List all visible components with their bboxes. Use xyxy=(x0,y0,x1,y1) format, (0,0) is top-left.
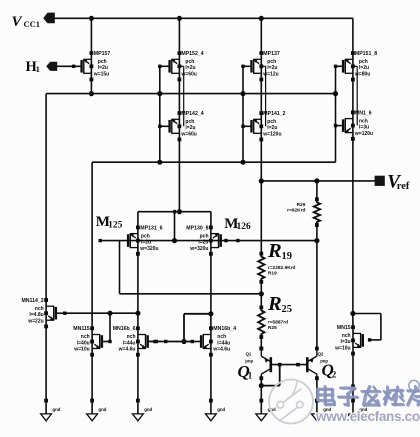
svg-text:pch: pch xyxy=(359,59,368,65)
svg-text:MP131_6: MP131_6 xyxy=(140,225,162,231)
svg-text:pch: pch xyxy=(185,119,194,125)
svg-text:w=22u: w=22u xyxy=(27,318,43,324)
svg-text:w=10u: w=10u xyxy=(334,346,350,352)
svg-text:pch: pch xyxy=(200,233,209,239)
svg-text:w=10u: w=10u xyxy=(73,347,89,353)
svg-text:w=4.6u: w=4.6u xyxy=(118,347,136,353)
svg-text:MP151_8: MP151_8 xyxy=(355,51,377,57)
svg-text:MN16b_6: MN16b_6 xyxy=(113,326,136,332)
svg-text:gnd: gnd xyxy=(217,407,225,412)
svg-text:w=320u: w=320u xyxy=(139,246,158,252)
svg-text:www.elecfans.com: www.elecfans.com xyxy=(315,409,420,424)
svg-text:r=2282.9Krd: r=2282.9Krd xyxy=(268,265,296,271)
svg-text:MP152_4: MP152_4 xyxy=(181,51,203,57)
svg-text:MN15: MN15 xyxy=(337,325,351,331)
svg-text:19: 19 xyxy=(282,251,293,262)
svg-text:R25: R25 xyxy=(268,325,277,331)
svg-text:gnd: gnd xyxy=(144,407,152,412)
svg-text:126: 126 xyxy=(237,222,252,232)
svg-text:MP141_2: MP141_2 xyxy=(263,111,285,117)
svg-text:125: 125 xyxy=(108,220,123,230)
svg-text:r=92Krd: r=92Krd xyxy=(287,207,305,213)
svg-text:w=80u: w=80u xyxy=(354,72,370,78)
svg-text:25: 25 xyxy=(282,304,293,315)
svg-text:1: 1 xyxy=(36,64,40,74)
svg-text:MN115: MN115 xyxy=(73,326,90,332)
svg-text:MN16b_4: MN16b_4 xyxy=(213,326,236,332)
svg-text:w=60u: w=60u xyxy=(180,132,196,138)
svg-text:w=320u: w=320u xyxy=(189,246,208,252)
svg-text:w=4.6u: w=4.6u xyxy=(212,347,230,353)
svg-text:l=3u: l=3u xyxy=(340,339,350,345)
svg-text:w=120u: w=120u xyxy=(262,132,281,138)
svg-text:l=44u: l=44u xyxy=(217,340,230,346)
svg-text:nch: nch xyxy=(359,118,368,124)
svg-text:nch: nch xyxy=(342,333,351,339)
svg-text:nch: nch xyxy=(217,334,226,340)
svg-text:2: 2 xyxy=(332,369,337,379)
svg-text:MN1_6: MN1_6 xyxy=(355,110,372,116)
svg-text:R19: R19 xyxy=(268,271,277,277)
svg-text:pch: pch xyxy=(98,59,107,65)
svg-text:w=60u: w=60u xyxy=(180,72,196,78)
svg-text:R: R xyxy=(267,293,282,315)
svg-text:nch: nch xyxy=(81,334,90,340)
svg-text:l=2u: l=2u xyxy=(185,65,195,71)
svg-text:l=2u: l=2u xyxy=(98,65,108,71)
svg-text:l=3u: l=3u xyxy=(359,124,369,130)
svg-text:nch: nch xyxy=(35,306,44,312)
svg-text:l=2u: l=2u xyxy=(359,65,369,71)
svg-text:Q2: Q2 xyxy=(318,351,324,356)
svg-text:w=12u: w=12u xyxy=(262,72,278,78)
svg-text:l=4.8u: l=4.8u xyxy=(29,312,43,318)
svg-text:l=40u: l=40u xyxy=(77,340,90,346)
svg-text:l=2u: l=2u xyxy=(198,239,208,245)
svg-text:nch: nch xyxy=(127,334,136,340)
svg-text:gnd: gnd xyxy=(52,407,60,412)
svg-text:w=15u: w=15u xyxy=(93,72,109,78)
svg-text:l=2u: l=2u xyxy=(267,65,277,71)
svg-text:MP130_8: MP130_8 xyxy=(186,225,208,231)
svg-text:w=120u: w=120u xyxy=(354,131,373,137)
svg-text:MP142_4: MP142_4 xyxy=(181,111,203,117)
svg-text:pch: pch xyxy=(185,59,194,65)
svg-text:R29: R29 xyxy=(297,202,306,208)
svg-text:ref: ref xyxy=(397,181,410,192)
svg-text:l=2u: l=2u xyxy=(185,125,195,131)
svg-text:gnd: gnd xyxy=(98,407,106,412)
svg-text:pch: pch xyxy=(267,119,276,125)
svg-text:Q1: Q1 xyxy=(246,351,252,356)
svg-text:CC1: CC1 xyxy=(24,19,41,29)
svg-text:r=5887rd: r=5887rd xyxy=(268,319,288,325)
svg-text:l=2u: l=2u xyxy=(267,125,277,131)
svg-text:MP157: MP157 xyxy=(94,51,111,57)
svg-text:pch: pch xyxy=(267,59,276,65)
svg-text:R: R xyxy=(267,240,282,262)
svg-text:l=44u: l=44u xyxy=(123,340,136,346)
svg-text:MP137: MP137 xyxy=(263,51,280,57)
svg-text:pch: pch xyxy=(141,233,150,239)
svg-text:MN114_2: MN114_2 xyxy=(21,298,43,304)
svg-text:1: 1 xyxy=(248,371,253,381)
